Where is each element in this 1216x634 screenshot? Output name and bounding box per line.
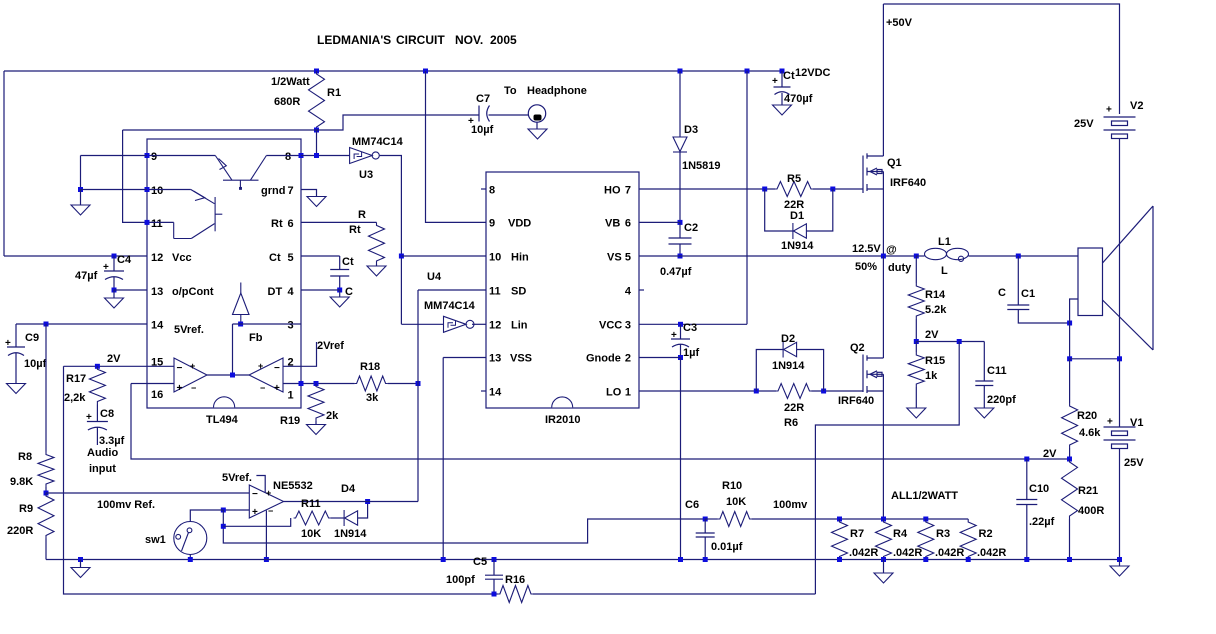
svg-text:10µf: 10µf (24, 358, 47, 370)
wire R11 to D4 (331, 517, 345, 519)
ground pin10 node (71, 205, 90, 215)
svg-text:R17: R17 (66, 373, 86, 385)
TL494 internal pin15 wire (147, 365, 174, 367)
wire R15 top lead (915, 342, 917, 353)
svg-text:25V: 25V (1074, 118, 1094, 130)
svg-text:+: + (1106, 105, 1112, 116)
wire U4 output to Lin (472, 323, 486, 325)
svg-text:10K: 10K (726, 496, 746, 508)
wire C5 top stem (493, 560, 495, 576)
junction R19 top (314, 381, 319, 386)
ground R4 (874, 573, 893, 583)
svg-text:6: 6 (288, 218, 294, 230)
wire 2V riser left (64, 366, 498, 594)
svg-text:+: + (177, 383, 183, 394)
junction top rail end / Ct 470uF (780, 69, 785, 74)
wire C11 bottom stem (983, 386, 985, 409)
svg-text:D2: D2 (781, 333, 795, 345)
svg-text:+: + (274, 383, 280, 394)
capacitor C8 3.3uF (87, 422, 108, 431)
headphone jack (528, 105, 545, 122)
wire U3 output riser (380, 156, 402, 325)
junction Fb node (238, 322, 243, 327)
junction 2V node R14 R15 (914, 339, 919, 344)
wire U4 input (401, 323, 443, 325)
wire Ct ground stem (339, 290, 341, 297)
wire 100mv ref (46, 492, 249, 494)
svg-text:13: 13 (151, 286, 163, 298)
junction R7 top (837, 517, 842, 522)
wire VS to L1 node (639, 255, 916, 257)
svg-text:14: 14 (151, 320, 164, 332)
svg-text:+: + (258, 361, 263, 371)
junction error amp output (230, 373, 235, 378)
junction C5 top (492, 557, 497, 562)
wire pin4 DT (301, 289, 340, 291)
wire Gnode riser down (680, 358, 682, 560)
wire pin16 riser vertical (131, 384, 1070, 460)
transistor Q1 IRF640 (863, 153, 883, 193)
svg-text:13: 13 (489, 353, 501, 365)
junction C1 bottom / speaker return (1067, 321, 1072, 326)
wire R17 to C8 (96, 405, 98, 422)
svg-text:TL494: TL494 (206, 414, 239, 426)
svg-text:R14: R14 (925, 289, 946, 301)
svg-text:4: 4 (625, 286, 632, 298)
junction C6 bottom rail (703, 557, 708, 562)
svg-text:−: − (191, 383, 196, 393)
inverter U3 MM74C14 (350, 148, 380, 164)
junction V1 ground (1117, 557, 1122, 562)
svg-text:IR2010: IR2010 (545, 414, 580, 426)
wire R14 bottom lead (915, 319, 917, 342)
svg-text:Lin: Lin (511, 320, 528, 332)
svg-text:5.2k: 5.2k (925, 304, 947, 316)
svg-text:VB: VB (605, 218, 620, 230)
svg-text:+: + (190, 361, 195, 371)
diode D1 1N914 (793, 223, 807, 239)
svg-text:R8: R8 (18, 451, 32, 463)
svg-text:R15: R15 (925, 355, 945, 367)
svg-text:U4: U4 (427, 271, 442, 283)
svg-text:Audio: Audio (87, 447, 118, 459)
svg-text:9.8K: 9.8K (10, 476, 33, 488)
svg-text:−: − (268, 506, 273, 516)
junction Gnode / C3 bottom (678, 355, 683, 360)
junction Ct / pin4 (337, 288, 342, 293)
ground C9 (7, 384, 26, 394)
svg-text:+: + (266, 488, 271, 498)
junction pin1 box edge (299, 381, 304, 386)
svg-text:R1: R1 (327, 87, 341, 99)
svg-text:MM74C14: MM74C14 (352, 136, 404, 148)
svg-text:2005: 2005 (490, 33, 517, 47)
IR2010 pin4 stub (639, 289, 644, 291)
wire left outer loop vertical (3, 71, 5, 256)
svg-text:680R: 680R (274, 96, 300, 108)
capacitor C5 100pf (485, 575, 503, 579)
resistor R19 2k (308, 384, 324, 421)
transistor internal Q-a (215, 156, 266, 190)
svg-text:Headphone: Headphone (527, 85, 587, 97)
svg-text:.042R: .042R (849, 547, 878, 559)
wire pin12 Vcc feed (4, 255, 147, 257)
wire Q1 drain to +50V (882, 4, 884, 156)
wire plus input to sw1 (190, 510, 223, 521)
wire V1 gnd stem (1119, 560, 1121, 567)
svg-text:2Vref: 2Vref (317, 340, 344, 352)
resistor R1 680R (309, 71, 325, 130)
svg-text:2,2k: 2,2k (64, 392, 86, 404)
wire R21 bottom lead (1069, 519, 1071, 560)
resistor R16 (498, 586, 533, 603)
svg-text:R: R (358, 209, 366, 221)
svg-text:Rt: Rt (349, 224, 361, 236)
speaker (1078, 206, 1153, 350)
svg-text:o/pCont: o/pCont (172, 286, 214, 298)
wire VDD riser (426, 71, 487, 222)
junction Gnode riser rail (678, 557, 683, 562)
junction speaker return / R20 (1067, 356, 1072, 361)
wire Ct bottom stem (339, 276, 341, 290)
junction top rail / VCC riser (745, 69, 750, 74)
wire pin6 Rt (301, 221, 377, 223)
wire HO to R5 (639, 188, 775, 190)
svg-text:+: + (772, 76, 778, 87)
ground C4 (105, 298, 124, 308)
junction top rail / D3 (678, 69, 683, 74)
svg-text:VDD: VDD (508, 218, 531, 230)
svg-text:SD: SD (511, 286, 526, 298)
resistor R21 400R (1062, 459, 1078, 519)
svg-text:+: + (5, 338, 11, 349)
junction pin14 / R8 (44, 322, 49, 327)
svg-text:25V: 25V (1124, 457, 1144, 469)
svg-text:12: 12 (151, 252, 163, 264)
svg-text:Gnode: Gnode (586, 353, 621, 365)
wire pin10 external (81, 189, 148, 191)
svg-text:.042R: .042R (935, 547, 964, 559)
wire pin9 down to pin10 node (80, 156, 82, 190)
diode D4 1N914 (344, 510, 358, 526)
capacitor C4 47uF (104, 271, 124, 280)
svg-text:3: 3 (288, 320, 294, 332)
wire feedback to R11 (223, 518, 290, 526)
junction R3 top (923, 517, 928, 522)
svg-text:9: 9 (489, 218, 495, 230)
svg-text:−: − (260, 383, 265, 393)
junction C4 bottom pin13 (112, 288, 117, 293)
svg-text:C3: C3 (683, 322, 697, 334)
svg-text:1: 1 (288, 390, 294, 402)
wire feedback stack (223, 510, 705, 543)
svg-text:16: 16 (151, 389, 163, 401)
wire R10 left lead (705, 518, 718, 520)
junction R4 top (881, 517, 886, 522)
wire 5Vref tick (256, 476, 265, 493)
wire R19 ground stem (315, 421, 317, 425)
junction NE5532 stem gnd rail (264, 557, 269, 562)
junction pin9 on box edge (145, 153, 150, 158)
svg-text:.042R: .042R (893, 547, 922, 559)
svg-text:R21: R21 (1078, 485, 1098, 497)
junction R7 bottom (837, 557, 842, 562)
svg-text:.22µf: .22µf (1029, 516, 1055, 528)
svg-text:L1: L1 (938, 236, 951, 248)
svg-text:Ct: Ct (269, 252, 281, 264)
svg-text:NE5532: NE5532 (273, 480, 313, 492)
svg-text:14: 14 (489, 387, 502, 399)
svg-text:3k: 3k (366, 392, 379, 404)
junction R2 bottom (966, 557, 971, 562)
svg-text:C7: C7 (476, 93, 490, 105)
svg-text:D1: D1 (790, 210, 804, 222)
wire R4 gnd stem (883, 560, 885, 574)
svg-text:47µf: 47µf (75, 270, 98, 282)
wire C6 bottom stem (704, 537, 706, 560)
junction C10 bottom (1024, 557, 1029, 562)
svg-text:3.3µf: 3.3µf (99, 435, 125, 447)
svg-text:C1: C1 (1021, 288, 1035, 300)
svg-text:Ct: Ct (342, 256, 354, 268)
wire node to V1 (1070, 358, 1120, 360)
battery V2 25V (1104, 117, 1136, 139)
wire +50V rail (883, 4, 1119, 114)
junction top rail / VDD riser (423, 69, 428, 74)
svg-text:100pf: 100pf (446, 574, 475, 586)
svg-text:100mv: 100mv (773, 499, 808, 511)
wire C9 bottom stem (15, 353, 17, 384)
wire R1 node to C7 (317, 115, 480, 130)
wire R5 right (813, 188, 863, 190)
resistor R5 22R (775, 182, 813, 197)
svg-text:R9: R9 (19, 503, 33, 515)
svg-text:DT: DT (268, 286, 283, 298)
svg-text:2V: 2V (925, 329, 939, 341)
transistor Q2 IRF640 (863, 355, 883, 394)
svg-text:12VDC: 12VDC (795, 67, 831, 79)
wire V1 top stem (1119, 359, 1121, 427)
wire R20 top lead (1069, 359, 1071, 403)
ground R19 (307, 425, 326, 435)
junction R18 / SD riser (416, 381, 421, 386)
svg-text:LEDMANIA'S: LEDMANIA'S (317, 33, 391, 47)
svg-text:−: − (177, 363, 183, 374)
wire error amp outputs (207, 374, 249, 376)
junction C6 / R10 (703, 517, 708, 522)
junction V1 top (1117, 356, 1122, 361)
svg-text:50%: 50% (855, 261, 877, 273)
junction L1 out / C1 (1016, 254, 1021, 259)
resistor R10 10K (718, 512, 752, 527)
capacitor Ct 470uF 12VDC (774, 87, 791, 95)
TL494 internal collector to pin8 (266, 155, 301, 157)
IR2010 pin14 stub (481, 390, 486, 392)
wire C3 bottom stem (680, 345, 682, 358)
wire pin5 Ct (301, 255, 340, 257)
resistor R17 2.2k (89, 366, 105, 404)
ground R15 (907, 408, 926, 418)
capacitor C6 0.01uF (696, 533, 715, 537)
svg-text:10K: 10K (301, 528, 321, 540)
junction VSS riser rail (441, 557, 446, 562)
wire VB pin6 to node (639, 221, 680, 223)
wire V1 bottom stem (1119, 449, 1121, 560)
svg-text:0.47µf: 0.47µf (660, 266, 692, 278)
wire pin1 internal (283, 383, 301, 385)
wire VCC pin3 to riser (639, 323, 747, 325)
junction C5 bottom (492, 592, 497, 597)
wire NE5532 V- stem (265, 511, 267, 560)
svg-text:grnd: grnd (261, 185, 285, 197)
IR2010 bottom notch (552, 397, 573, 408)
ground C11 (975, 408, 994, 418)
svg-text:+: + (671, 330, 677, 341)
svg-text:10: 10 (489, 252, 501, 264)
svg-text:ALL1/2WATT: ALL1/2WATT (891, 490, 958, 502)
svg-text:R18: R18 (360, 361, 380, 373)
wire +12V top rail (4, 70, 782, 72)
svg-text:7: 7 (625, 185, 631, 197)
svg-text:+: + (103, 262, 109, 273)
junction U3 output / Hin (399, 254, 404, 259)
svg-text:VSS: VSS (510, 353, 532, 365)
wire NE5532 plus input (223, 509, 249, 511)
svg-text:1/2Watt: 1/2Watt (271, 76, 310, 88)
wire R9 to ground rail (45, 539, 47, 560)
wire C4 top stem (113, 256, 115, 271)
svg-text:8: 8 (285, 151, 291, 163)
wire pin8 to U3 input (301, 155, 350, 157)
wire VSS riser down (442, 358, 444, 560)
junction pin8 net (314, 153, 319, 158)
wire C4 ground stem (113, 290, 115, 298)
wire C1 top stem (1017, 256, 1019, 305)
junction top rail / R1 (314, 69, 319, 74)
svg-text:0.01µf: 0.01µf (711, 541, 743, 553)
ground pin7 (307, 197, 326, 207)
wire D2 left leg (756, 350, 783, 392)
wire sw1 to ground rail (189, 555, 191, 560)
junction pin8 on box edge (299, 153, 304, 158)
svg-text:C10: C10 (1029, 483, 1049, 495)
capacitor Ct timing (330, 270, 349, 277)
resistor R6 22R (776, 384, 812, 399)
diode D3 1N5819 (673, 137, 687, 152)
TL494 internal feedback riser (232, 324, 234, 375)
junction R21 bottom (1067, 557, 1072, 562)
wire D1 left leg (765, 189, 793, 231)
wire R15 gnd stem (915, 387, 917, 408)
wire pin7 ground (301, 190, 317, 197)
wire V2 bottom to speaker node (1119, 139, 1121, 359)
svg-text:220R: 220R (7, 525, 33, 537)
svg-text:@: @ (886, 244, 897, 256)
svg-text:Vcc: Vcc (172, 252, 192, 264)
switch sw1 (174, 522, 207, 555)
svg-text:2k: 2k (326, 410, 339, 422)
svg-text:2: 2 (625, 353, 631, 365)
svg-text:400R: 400R (1078, 505, 1104, 517)
op-amp error amp right (249, 358, 283, 392)
svg-text:Fb: Fb (249, 332, 263, 344)
resistor R8 9.8K (38, 452, 54, 488)
capacitor C2 0.47uF (669, 238, 692, 244)
resistor R15 1k (908, 352, 924, 387)
svg-text:MM74C14: MM74C14 (424, 300, 476, 312)
junction pin10 node (78, 187, 83, 192)
resistor R9 220R (38, 493, 54, 539)
svg-text:U3: U3 (359, 169, 373, 181)
wire Ct top stem (339, 256, 341, 270)
svg-text:1µf: 1µf (683, 347, 699, 359)
svg-text:+: + (1107, 417, 1113, 428)
ground 12VDC cap (773, 105, 792, 115)
junction VS / C2 bottom (678, 254, 683, 259)
wire rail to D3 (679, 71, 681, 137)
resistor R2 .042R (960, 519, 976, 560)
resistor R3 .042R (918, 519, 934, 560)
svg-text:8: 8 (489, 185, 495, 197)
junction 100mv ref node (44, 491, 49, 496)
svg-text:R3: R3 (936, 528, 950, 540)
svg-text:10µf: 10µf (471, 124, 494, 136)
wire SD riser (417, 290, 419, 502)
svg-text:1k: 1k (925, 370, 938, 382)
inductor L1 (925, 248, 969, 261)
resistor R14 5.2k (908, 283, 924, 319)
junction R1 bottom (314, 128, 319, 133)
diode D2 1N914 (783, 342, 797, 358)
svg-text:2V: 2V (1043, 448, 1057, 460)
wire R8 to 100mv node (45, 487, 47, 493)
wire Rt ground stem (376, 264, 378, 266)
wire R1 bottom to TL494 pin11 riser (123, 129, 317, 131)
ground headphone (528, 129, 547, 139)
svg-text:3: 3 (625, 320, 631, 332)
wire D2 right leg (797, 350, 824, 392)
svg-text:7: 7 (288, 185, 294, 197)
wire riser x=122.6 to pin 11 (123, 130, 147, 222)
wire pin15 2V (64, 365, 148, 367)
wire Gnode (639, 357, 681, 359)
svg-text:To: To (504, 85, 517, 97)
svg-text:LO: LO (606, 387, 622, 399)
svg-text:1N914: 1N914 (781, 240, 814, 252)
svg-text:C: C (998, 287, 1006, 299)
svg-text:sw1: sw1 (145, 534, 166, 546)
ground V1 (1110, 566, 1129, 576)
svg-text:VCC: VCC (599, 320, 622, 332)
capacitor C11 220pf (975, 381, 993, 386)
wire VSS pin13 (443, 357, 486, 359)
wire pin16 riser to VSS net (131, 383, 147, 385)
svg-text:C6: C6 (685, 499, 699, 511)
wire R6 right (812, 390, 864, 392)
wire C4 bottom stem (113, 277, 115, 290)
junction C10 top 2V line (1024, 457, 1029, 462)
junction pin11 on box edge (145, 220, 150, 225)
wire C10 bottom stem (1026, 505, 1028, 560)
wire VS node to L1 (916, 255, 924, 257)
junction output / D4 (365, 499, 370, 504)
svg-text:11: 11 (489, 286, 501, 298)
wire SD horizontal (418, 289, 486, 291)
wire C10 top stem (1026, 459, 1028, 500)
svg-text:5Vref.: 5Vref. (222, 472, 252, 484)
svg-text:V2: V2 (1130, 100, 1143, 112)
svg-text:5: 5 (288, 252, 294, 264)
